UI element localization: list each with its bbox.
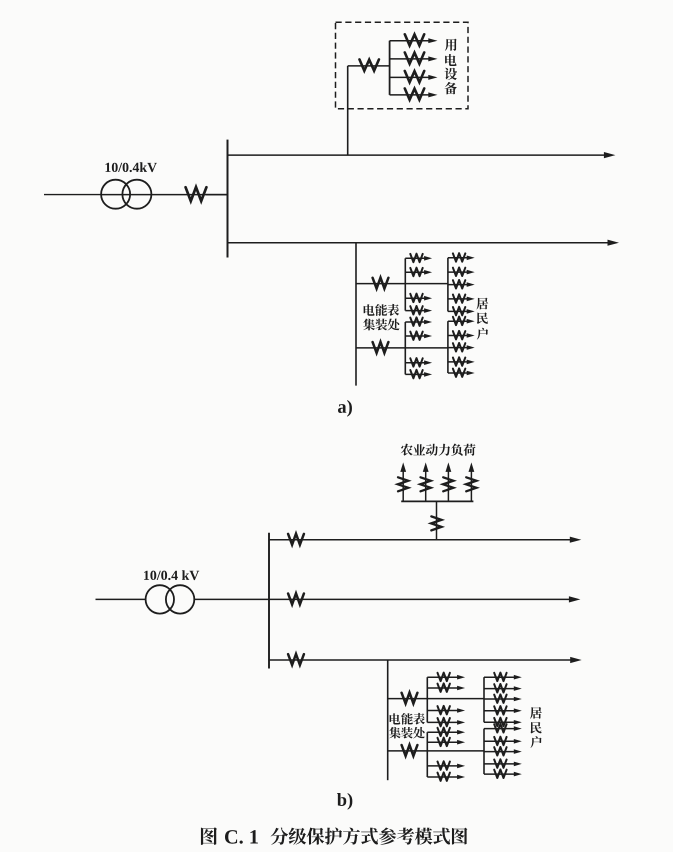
household element y=764 (part b) — [484, 759, 522, 768]
label 10/0.4kV (part a) — [105, 163, 110, 172]
meter outgoing element y=766 (part b) — [427, 761, 465, 770]
bus vertical (part b) — [268, 533, 270, 669]
meter outgoing element y=688 (part b) — [427, 683, 465, 692]
agricultural load branch 4: arrow up + fuse (part b) — [466, 462, 476, 501]
household element y=299 (part a) — [448, 294, 475, 303]
meter outgoing element y=710 (part b) — [427, 706, 465, 715]
bus: equipment distribution (part a) — [389, 41, 391, 95]
meter feed 1 wire + breaker (part b) — [388, 693, 484, 704]
agricultural load bus (part b) — [401, 500, 473, 502]
caption b) — [337, 793, 346, 806]
wire: feeder 1 (part a) — [228, 154, 606, 156]
household element y=285 (part a) — [448, 280, 475, 289]
caption a) — [338, 404, 346, 413]
wire: transformer to bus (part b) — [194, 598, 269, 600]
household column bus group A (part a) — [447, 258, 449, 312]
household element y=677 (part b) — [484, 673, 522, 682]
household element y=348 (part a) — [448, 343, 475, 352]
arrow feeder 2 (part a) — [608, 240, 620, 246]
meter outgoing element y=374 (part a) — [405, 370, 432, 379]
household column bus group B (part a) — [447, 321, 449, 373]
label 用电设备 (vertical, part a) — [445, 39, 458, 95]
dashed enclosure box (part a) — [336, 22, 469, 109]
label 农业动力负荷 (part b) — [401, 444, 476, 456]
wire: box feed (part a) — [348, 65, 390, 67]
feeder 1 wire + breaker + arrow (part b) — [269, 534, 581, 545]
meter outgoing element y=677 (part b) — [427, 673, 465, 682]
household element y=699 (part b) — [484, 694, 522, 703]
branch breaker + arrow, equipment 2 (part a) — [390, 53, 438, 64]
meter outgoing element y=732 (part b) — [427, 728, 465, 737]
meter feed 2 wire + breaker (part a) — [356, 342, 448, 353]
household element y=774 (part b) — [484, 770, 522, 779]
feeder 2 wire + breaker + arrow (part b) — [269, 593, 580, 604]
meter outgoing element y=742 (part b) — [427, 738, 465, 747]
wire: transformer to main breaker (part a) — [101, 194, 227, 196]
meter outgoing element y=272 (part a) — [405, 268, 432, 277]
wire: source to transformer (part a) — [44, 194, 101, 196]
branch breaker + arrow, equipment 3 (part a) — [390, 71, 438, 82]
household element y=311 (part a) — [448, 307, 475, 316]
agricultural load branch 3: arrow up + fuse (part b) — [443, 462, 453, 501]
breaker W box feed (part a) — [360, 60, 379, 71]
label 10/0.4 kV (part b) — [144, 571, 149, 580]
meter column bus group A (part b) — [426, 677, 428, 722]
label 居民户 (vertical, part b) — [530, 707, 542, 748]
household element y=752 (part b) — [484, 747, 522, 756]
household element y=272 (part a) — [448, 268, 475, 277]
meter outgoing element y=777 (part b) — [427, 772, 465, 781]
household element y=722 (part b) — [484, 718, 522, 727]
feeder 3 wire + breaker + arrow (part b) — [269, 654, 582, 665]
bus vertical (part a) — [227, 140, 229, 258]
household element y=321 (part a) — [448, 317, 475, 326]
household element y=711 (part b) — [484, 706, 522, 715]
meter feed 2 wire + breaker (part b) — [388, 745, 484, 756]
agricultural load branch 2: arrow up + fuse (part b) — [420, 462, 430, 501]
meter outgoing element y=298 (part a) — [405, 294, 432, 303]
meter outgoing element y=363 (part a) — [405, 358, 432, 367]
breaker W main incomer (part a) — [186, 187, 228, 201]
meter outgoing element y=336 (part a) — [405, 331, 432, 340]
wire: riser to equipment box (part a) — [347, 66, 349, 155]
meter outgoing element y=311 (part a) — [405, 306, 432, 315]
household element y=258 (part a) — [448, 253, 475, 262]
wire: source to transformer (part b) — [96, 598, 146, 600]
branch breaker + arrow, equipment 1 (part a) — [390, 34, 438, 45]
figure caption 分级保护方式参考模式图 — [271, 827, 468, 844]
meter outgoing element y=322 (part a) — [405, 317, 432, 326]
figure caption 图 C.1 — [201, 827, 217, 845]
meter outgoing element y=722 (part b) — [427, 718, 465, 727]
agricultural feeder tap + fuse (part b) — [431, 501, 441, 540]
household element y=362 (part a) — [448, 357, 475, 366]
household element y=741 (part b) — [484, 737, 522, 746]
label 电能表集装处 (part b) — [389, 713, 425, 739]
meter outgoing element y=258 (part a) — [405, 254, 432, 263]
transformer T1 10/0.4kV (part a) — [101, 180, 151, 209]
meter column bus group A (part a) — [404, 258, 406, 310]
arrow feeder 1 (part a) — [604, 152, 616, 158]
transformer T2 10/0.4 kV (part b) — [146, 585, 195, 613]
household element y=336 (part a) — [448, 331, 475, 340]
figure caption C. 1 — [225, 830, 237, 844]
household element y=373 (part a) — [448, 368, 475, 377]
wire: drop to meter board (part a) — [355, 243, 357, 386]
label 电能表集装处 (part a) — [363, 304, 399, 331]
meter column bus group B (part a) — [404, 322, 406, 374]
household element y=729 (part b) — [484, 724, 522, 733]
household column bus group B (part b) — [483, 729, 485, 775]
label 居民户 (vertical, part a) — [476, 298, 488, 340]
agricultural load branch 1: arrow up + fuse (part b) — [398, 462, 408, 501]
branch breaker + arrow, equipment 4 (part a) — [390, 89, 438, 100]
wire: drop to meter board (part b) — [387, 660, 389, 780]
household element y=689 (part b) — [484, 684, 522, 693]
meter feed 1 wire + breaker (part a) — [356, 278, 448, 289]
meter column bus group B (part b) — [426, 732, 428, 777]
household column bus group A (part b) — [483, 677, 485, 722]
wire: feeder 2 (part a) — [228, 242, 610, 244]
